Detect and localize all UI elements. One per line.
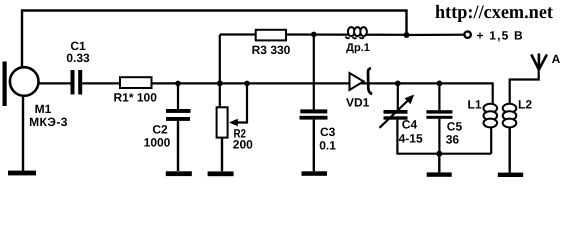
- wire: mic to C1: [38, 82, 71, 84]
- svg-text:1000: 1000: [144, 136, 171, 150]
- svg-text:МКЭ-3: МКЭ-3: [29, 115, 68, 129]
- wire: C4 top lead: [397, 83, 399, 110]
- wire: main signal line R1 to VD1: [152, 82, 369, 84]
- label R2 200: [233, 126, 253, 151]
- wire: C3 riser crossing main line: [313, 34, 315, 109]
- wire: L1 bottom lead: [490, 127, 492, 154]
- variable capacitor C4: [380, 95, 415, 128]
- wire: L2 bottom lead: [509, 127, 511, 173]
- svg-text:Др.1: Др.1: [346, 42, 370, 54]
- wire: C2 bottom lead: [177, 121, 179, 171]
- ground (C2): [166, 171, 192, 176]
- label C2 1000: [144, 123, 171, 150]
- svg-text:L2: L2: [518, 97, 532, 111]
- svg-text:A: A: [552, 52, 561, 66]
- svg-text:http://cxem.net: http://cxem.net: [435, 2, 554, 23]
- node: junction R3/C3 riser: [311, 32, 317, 38]
- wire: to battery terminal: [407, 34, 465, 36]
- svg-text:C4: C4: [402, 118, 418, 132]
- wire: VD1 to L1 top corner: [369, 83, 493, 104]
- resistor R1: [120, 77, 152, 88]
- ground (LC tank): [427, 172, 452, 176]
- capacitor C5: [426, 110, 452, 119]
- capacitor C1: [71, 70, 83, 95]
- diode VD1: [350, 68, 373, 94]
- svg-text:+ 1,5 В: + 1,5 В: [477, 29, 524, 43]
- ground (microphone): [8, 171, 36, 176]
- label C1 0.33: [66, 39, 90, 65]
- label C5 36: [446, 120, 463, 147]
- resistor R3: [256, 30, 286, 41]
- wire: R3 branch line: [220, 33, 256, 35]
- inductor choke Др.1: [346, 27, 367, 38]
- terminal: +1.5V battery: [464, 31, 470, 37]
- node: junction R3/R2 branch: [217, 80, 223, 86]
- node: junction C5 top: [437, 81, 443, 87]
- wire: C5 bottom lead: [438, 119, 440, 154]
- wire: C2 top lead: [177, 83, 179, 109]
- svg-text:C5: C5: [447, 120, 463, 134]
- svg-text:VD1: VD1: [346, 96, 370, 110]
- antenna A: [531, 54, 547, 70]
- microphone M1: [3, 62, 39, 107]
- wire: R2 bottom lead: [221, 138, 223, 172]
- node: junction top-rail / choke / battery: [404, 32, 410, 38]
- svg-text:L1: L1: [467, 97, 481, 111]
- ground (C3): [302, 171, 328, 176]
- svg-text:0.33: 0.33: [66, 51, 90, 65]
- node: junction bottom rail / ground stub: [436, 151, 442, 157]
- wire: microphone bottom lead: [22, 95, 24, 171]
- svg-text:200: 200: [233, 138, 253, 152]
- wire: C1 to R1: [82, 82, 120, 84]
- wire: R3 to choke: [286, 33, 407, 35]
- svg-text:36: 36: [446, 133, 460, 147]
- wire: ground stub: [438, 154, 440, 173]
- label C3 0.1: [319, 125, 336, 153]
- ground (R2): [208, 171, 234, 176]
- svg-text:R1* 100: R1* 100: [114, 91, 158, 105]
- potentiometer R2: [217, 107, 228, 137]
- capacitor C2: [166, 109, 191, 121]
- label M1 МКЭ-3: [29, 102, 68, 129]
- svg-text:R3 330: R3 330: [252, 43, 291, 57]
- wire: bottom rail C4 to L1: [396, 153, 491, 155]
- node: junction C2 top: [175, 81, 181, 87]
- wire: L2 top lead to antenna: [510, 68, 539, 105]
- label C4 4-15: [399, 118, 423, 146]
- wire: riser to R3 branch and down to R2: [219, 35, 221, 108]
- svg-text:0.1: 0.1: [319, 139, 336, 153]
- node: junction C4 top: [395, 81, 401, 87]
- wire: top supply rail from microphone to choke branch: [22, 11, 407, 68]
- svg-text:4-15: 4-15: [399, 132, 423, 146]
- inductor L2: [503, 104, 517, 128]
- svg-text:C3: C3: [320, 125, 336, 139]
- wire: C5 top lead: [438, 83, 440, 110]
- capacitor C3: [300, 109, 328, 119]
- wire: C3 bottom lead: [313, 120, 315, 172]
- svg-text:C2: C2: [152, 123, 168, 137]
- svg-text:M1: M1: [35, 102, 52, 116]
- ground (L2): [498, 173, 523, 177]
- wire: C4 bottom lead: [396, 120, 398, 154]
- inductor L1: [484, 104, 498, 128]
- wire: R2 wiper: [229, 81, 250, 127]
